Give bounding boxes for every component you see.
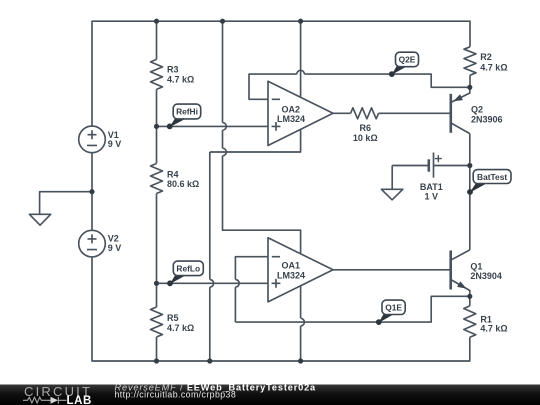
voltage source V2: [79, 230, 106, 257]
op-amp OA1: [268, 238, 333, 302]
svg-text:R5: R5: [167, 313, 179, 323]
wire RefHi to OA2 plus: [157, 125, 269, 127]
wire battery left: [392, 165, 470, 167]
wire R4 stubs: [156, 126, 158, 283]
wire R2 bottom stub: [469, 75, 471, 87]
svg-text:Q1: Q1: [470, 261, 482, 271]
resistor R3: [151, 59, 163, 89]
svg-text:OA1: OA1: [282, 261, 301, 271]
transistor Q2 emitter arrow (PNP): [453, 94, 463, 101]
node flag Q2E: [389, 52, 419, 77]
wire RefLo to OA1 plus: [157, 282, 269, 284]
voltage source V1: [79, 126, 106, 153]
transistor Q1: [449, 251, 452, 290]
svg-text:RefLo: RefLo: [176, 263, 200, 273]
battery BAT1: [427, 159, 430, 171]
resistor R6: [351, 108, 379, 119]
node flag BatTest: [467, 170, 511, 195]
svg-text:LAB: LAB: [67, 395, 92, 405]
svg-text:RefHi: RefHi: [176, 107, 198, 117]
resistor R5: [151, 307, 163, 337]
svg-text:R3: R3: [167, 64, 179, 74]
svg-text:BAT1: BAT1: [420, 182, 443, 192]
logo wire resistor diode: [23, 397, 67, 404]
svg-text:9 V: 9 V: [108, 243, 122, 253]
wire ground tap: [40, 192, 92, 215]
svg-text:1 V: 1 V: [425, 191, 439, 201]
wire OA1 output to Q1 base: [333, 269, 451, 271]
svg-text:R2: R2: [480, 52, 492, 62]
svg-text:4.7 kΩ: 4.7 kΩ: [167, 75, 194, 85]
svg-text:2N3906: 2N3906: [471, 114, 503, 124]
svg-text:2N3904: 2N3904: [470, 271, 502, 281]
svg-text:BatTest: BatTest: [477, 172, 507, 182]
wire Q2 collector down: [469, 134, 471, 166]
wire OA2 V- supply down: [210, 152, 214, 361]
resistor R1: [464, 306, 476, 337]
wire OA2 minus feedback to Q2E: [249, 70, 470, 99]
svg-text:80.6 kΩ: 80.6 kΩ: [167, 179, 199, 189]
svg-text:LM324: LM324: [277, 114, 305, 124]
node flag RefHi: [167, 104, 201, 129]
op-amp OA2: [268, 81, 333, 145]
component value labels: [108, 52, 508, 334]
wire R3 stubs: [156, 21, 158, 126]
wire OA2 V+ supply: [210, 21, 301, 152]
resistor R4: [151, 164, 163, 194]
wire Q1 collector up to BatTest: [469, 166, 471, 250]
svg-text:4.7 kΩ: 4.7 kΩ: [480, 324, 507, 334]
svg-text:Q2E: Q2E: [399, 55, 416, 65]
svg-text:4.7 kΩ: 4.7 kΩ: [480, 62, 507, 72]
wire OA1 minus loop: [235, 257, 268, 322]
wire battery ground drop: [391, 166, 393, 190]
wire OA1 V- supply: [301, 270, 305, 361]
transistor Q2: [449, 94, 452, 133]
svg-text:9 V: 9 V: [108, 139, 122, 149]
wire bottom rail: [92, 257, 470, 361]
wire OA1 V+ supply: [223, 21, 301, 269]
node flag RefLo: [167, 261, 203, 286]
svg-text:R4: R4: [167, 169, 179, 179]
wire top rail: [92, 21, 470, 126]
wire R1 top stub: [469, 296, 471, 306]
resistor R2: [464, 47, 476, 75]
svg-text:LM324: LM324: [277, 271, 305, 281]
ground (battery): [381, 189, 402, 200]
logo diode triangle: [51, 397, 59, 404]
wire R5 stubs: [156, 283, 158, 361]
svg-text:Q2: Q2: [471, 105, 483, 115]
wire left mid V1-V2: [91, 153, 93, 231]
ground (main, left): [29, 214, 50, 225]
svg-text:4.7 kΩ: 4.7 kΩ: [167, 323, 194, 333]
svg-text:Q1E: Q1E: [385, 302, 402, 312]
svg-text:OA2: OA2: [282, 104, 301, 114]
wire Q1 emitter to OA1 minus (Q1E net): [235, 296, 469, 322]
node flag Q1E: [376, 300, 405, 325]
svg-text:R6: R6: [360, 123, 372, 133]
wire OA2 output to R6 to Q2 base: [333, 112, 451, 114]
svg-text:10 kΩ: 10 kΩ: [353, 133, 378, 143]
svg-text:http://circuitlab.com/crpbp38: http://circuitlab.com/crpbp38: [115, 390, 237, 400]
transistor Q1 emitter arrow (NPN): [457, 281, 466, 288]
